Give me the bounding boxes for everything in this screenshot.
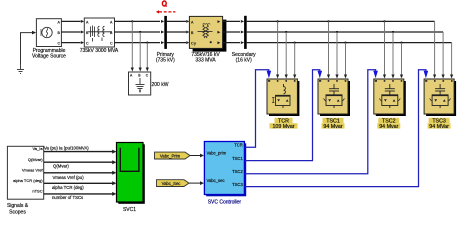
svg-text:Q(Mvar): Q(Mvar)	[28, 157, 43, 162]
trigger arrow TSC1	[318, 71, 323, 78]
TSC1 block	[318, 79, 350, 116]
primary bus bar	[164, 16, 167, 49]
label: TCR 109 Mvar	[275, 118, 293, 123]
node tap phase C to TCR	[294, 42, 296, 44]
wire drop phase B to TSC3	[442, 32, 444, 76]
svg-text:Vabc_sec: Vabc_sec	[207, 178, 225, 183]
node tap phase A to TSC2	[383, 20, 385, 22]
wire ground to source input	[21, 33, 33, 64]
phase line B (16 kV)	[247, 31, 443, 33]
load block 200 kW	[129, 72, 151, 95]
signals and scopes subsystem	[7, 146, 43, 199]
svg-text:alpha TCR (deg): alpha TCR (deg)	[13, 178, 43, 183]
wire drop A to load	[131, 21, 133, 68]
wire impedance A to primary bus	[115, 20, 161, 22]
wire drop phase C to TCR	[294, 43, 296, 76]
programmable voltage source block	[36, 19, 61, 47]
from tag Vabc_Prim	[155, 152, 191, 159]
svg-text:number of TSCs: number of TSCs	[52, 195, 83, 200]
trigger wire TSC1	[245, 70, 320, 161]
trigger wire TSC3	[245, 70, 426, 187]
node tap phase C to TSC1	[344, 42, 346, 44]
annotation red dashed arrow	[159, 11, 175, 13]
wire xfo to secondary bus c	[223, 42, 240, 44]
wire Q(Mvar) to scope	[44, 161, 113, 163]
svg-text:94 Mvar: 94 Mvar	[323, 124, 342, 130]
svg-text:TSC3: TSC3	[232, 182, 243, 187]
wire bus to xfo A	[167, 20, 186, 22]
wire drop phase A to TCR	[277, 21, 279, 75]
svg-text:Vmeas Vref: Vmeas Vref	[22, 167, 44, 172]
node tap phase C to TSC2	[400, 42, 402, 44]
svg-text:109 Mvar: 109 Mvar	[272, 124, 294, 130]
scope block SVC1	[117, 143, 145, 204]
svg-text:C: C	[86, 41, 89, 45]
svg-text:333 MVA: 333 MVA	[195, 58, 216, 64]
svg-text:Vmeas Vref (pu): Vmeas Vref (pu)	[53, 175, 85, 180]
secondary bus bar	[244, 16, 247, 49]
node tap phase A to TCR	[277, 20, 279, 22]
svg-text:Voltage Source: Voltage Source	[32, 54, 66, 60]
svg-text:Va_Ia: Va_Ia	[32, 146, 43, 151]
label: TSC3 94 MVar	[429, 118, 450, 123]
svg-text:Scopes: Scopes	[9, 209, 26, 215]
wire drop phase A to TSC3	[434, 21, 436, 75]
TSC2 block	[374, 79, 406, 116]
node tap phase B to TSC1	[336, 31, 338, 33]
svg-text:alpha TCR (deg): alpha TCR (deg)	[52, 185, 84, 190]
SVC Controller block	[204, 142, 246, 197]
svg-text:SVC Controller: SVC Controller	[208, 200, 242, 206]
TCR block	[267, 79, 299, 116]
wire tag2 to controller	[189, 182, 201, 184]
wire nTSC to scope	[44, 193, 113, 195]
wire Vmeas Vref to scope	[44, 172, 113, 174]
annotation Q (red)	[162, 1, 166, 7]
wire drop phase A to TSC1	[328, 21, 330, 75]
svg-text:200 kW: 200 kW	[152, 82, 169, 88]
svg-text:C: C	[58, 41, 61, 45]
trigger arrow TCR	[267, 71, 272, 78]
svg-text:Q(Mvar): Q(Mvar)	[53, 164, 69, 169]
wire drop phase C to TSC2	[401, 43, 403, 76]
node tap phase B to TSC2	[392, 31, 394, 33]
wire bus to xfo C	[167, 42, 186, 44]
wire drop B to load	[139, 32, 141, 69]
wire xfo to secondary bus a	[223, 20, 240, 22]
wire drop phase C to TSC1	[345, 43, 347, 76]
ground symbol (source neutral)	[17, 64, 24, 74]
node tap A to load	[131, 20, 133, 22]
svg-text:TCR: TCR	[234, 143, 243, 148]
wire bus to xfo B	[167, 31, 186, 33]
wire drop phase A to TSC2	[384, 21, 386, 75]
from tag Vabc_Sec	[157, 180, 190, 187]
svg-text:Vabc_Prim: Vabc_Prim	[160, 153, 181, 158]
svg-text:(16 kV): (16 kV)	[236, 58, 252, 64]
wire xfo to secondary bus b	[223, 31, 240, 33]
trigger arrow TSC3	[424, 71, 429, 78]
label: TSC2 94 Mvar	[378, 118, 399, 123]
wire src A to impedance A	[61, 20, 80, 22]
source impedance block 735kV 3000 MVA	[84, 18, 114, 47]
label: TSC1 94 Mvar	[323, 118, 344, 123]
node tap phase B to TCR	[285, 31, 287, 33]
phase line A (16 kV)	[247, 20, 435, 22]
svg-text:nTSC: nTSC	[32, 189, 42, 194]
svg-text:94 MVar: 94 MVar	[429, 124, 449, 130]
wire drop phase B to TSC1	[336, 32, 338, 76]
wire impedance C to primary bus	[115, 42, 161, 44]
wire drop phase B to TCR	[285, 32, 287, 76]
wire alpha TCR to scope	[44, 182, 113, 184]
transformer block 735kV/16 kV 333 MVA	[189, 16, 226, 51]
svg-text:735kV 3000 MVA: 735kV 3000 MVA	[80, 48, 119, 54]
wire Va_Ia to scope	[44, 151, 113, 153]
phase line C (16 kV)	[247, 42, 452, 44]
wire impedance B to primary bus	[115, 31, 161, 33]
wire drop phase C to TSC3	[451, 43, 453, 76]
wire drop C to load	[146, 43, 148, 69]
svg-text:C: C	[110, 41, 113, 45]
trigger wire TCR	[245, 70, 269, 147]
svg-text:Vabc_prim: Vabc_prim	[207, 150, 227, 155]
node tap B to load	[139, 31, 141, 33]
svg-text:TSC1: TSC1	[232, 156, 243, 161]
wire tag1 to controller	[190, 155, 201, 157]
wire src C to impedance C	[61, 42, 80, 44]
svg-text:Va (pu) Ia (pu/100MVA): Va (pu) Ia (pu/100MVA)	[44, 146, 89, 151]
wire drop phase B to TSC2	[392, 32, 394, 76]
svg-text:SVC1: SVC1	[123, 207, 136, 213]
trigger wire TSC2	[245, 70, 376, 174]
svg-text:Signals &: Signals &	[7, 203, 29, 209]
wire src B to impedance B	[61, 31, 80, 33]
svg-text:Vabc_Sec: Vabc_Sec	[162, 181, 181, 186]
trigger arrow TSC2	[373, 71, 378, 78]
node tap phase A to TSC1	[327, 20, 329, 22]
svg-text:TSC2: TSC2	[232, 169, 243, 174]
TSC3 block	[424, 79, 456, 116]
node tap C to load	[146, 42, 148, 44]
svg-text:(735 kV): (735 kV)	[156, 58, 175, 64]
svg-text:94 Mvar: 94 Mvar	[379, 124, 398, 130]
svg-text:y: y	[194, 41, 196, 46]
